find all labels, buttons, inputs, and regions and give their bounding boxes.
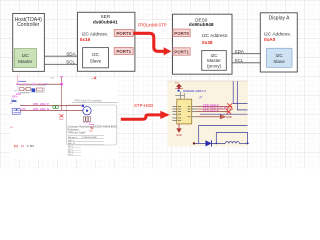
svg-text:DES0: DES0: [195, 17, 208, 22]
svg-text:SCL: SCL: [235, 58, 244, 63]
svg-text:Master: Master: [18, 59, 33, 64]
svg-text:GND: GND: [176, 134, 182, 137]
svg-text:DHR2M1-4IRA7-C: DHR2M1-4IRA7-C: [183, 89, 206, 93]
svg-text:I2C Address:: I2C Address:: [202, 33, 228, 38]
svg-text:FPD-Link III Interface: FPD-Link III Interface: [75, 98, 103, 102]
svg-text:(proxy): (proxy): [207, 63, 222, 68]
svg-text:SDA: SDA: [66, 51, 76, 56]
svg-text:GND: GND: [226, 115, 232, 119]
svg-text:Display A: Display A: [269, 16, 291, 22]
svg-text:SCL: SCL: [66, 59, 75, 64]
svg-text:I2C: I2C: [276, 53, 284, 58]
svg-text:0xA0: 0xA0: [264, 37, 276, 42]
svg-text:PORT0: PORT0: [174, 31, 189, 36]
svg-text:SDA: SDA: [235, 49, 245, 54]
svg-text:Preference:: Preference:: [68, 129, 80, 132]
svg-text:GND: GND: [89, 131, 94, 133]
svg-text:FPD-HSD-N: FPD-HSD-N: [203, 108, 219, 112]
svg-text:0.1uF 50V: 0.1uF 50V: [20, 93, 30, 95]
svg-text:Mfr part #: Mfr part #: [68, 136, 78, 139]
svg-text:I2C: I2C: [22, 53, 30, 58]
svg-text:Slave: Slave: [273, 59, 285, 64]
svg-text:Controller: Controller: [17, 22, 40, 28]
svg-text:ds90ub948: ds90ub948: [189, 22, 214, 28]
svg-text:N: DNI: N: DNI: [27, 145, 35, 148]
svg-text:I2C Address:: I2C Address:: [264, 32, 291, 37]
svg-text:Qty: 1: Qty: 1: [68, 139, 75, 142]
svg-text:GND: GND: [59, 119, 64, 121]
svg-text:D4S20G-40M: D4S20G-40M: [83, 137, 97, 139]
svg-text:Connector: Rosenberger D4S20G-: Connector: Rosenberger D4S20G-40MA5-800A: [68, 126, 117, 129]
svg-text:PORT0: PORT0: [116, 31, 131, 36]
svg-text:J1 A: J1 A: [50, 77, 55, 80]
svg-text:"FPD-Link 'Cable'": "FPD-Link 'Cable'": [68, 132, 87, 134]
svg-text:PORT1: PORT1: [174, 50, 189, 55]
svg-text:Ref: J1: Ref: J1: [68, 143, 76, 145]
svg-text:FPD_HSD_P: FPD_HSD_P: [33, 102, 49, 106]
svg-text:0x38: 0x38: [202, 40, 213, 45]
svg-text:SER: SER: [100, 14, 110, 19]
svg-text:0x16: 0x16: [80, 37, 91, 42]
svg-text:I2C: I2C: [92, 52, 100, 57]
svg-text:I2C Address:: I2C Address:: [82, 31, 108, 36]
svg-text:J?: J?: [199, 96, 202, 100]
svg-text:Slave: Slave: [90, 58, 102, 63]
svg-text:STP-HSD: STP-HSD: [134, 103, 153, 108]
svg-text:FPDLinkIII-STP: FPDLinkIII-STP: [138, 22, 167, 27]
svg-text:PORT1: PORT1: [116, 49, 131, 54]
svg-text:FPD_HSD_N: FPD_HSD_N: [33, 107, 49, 111]
svg-text:ds90ub941: ds90ub941: [93, 19, 118, 25]
